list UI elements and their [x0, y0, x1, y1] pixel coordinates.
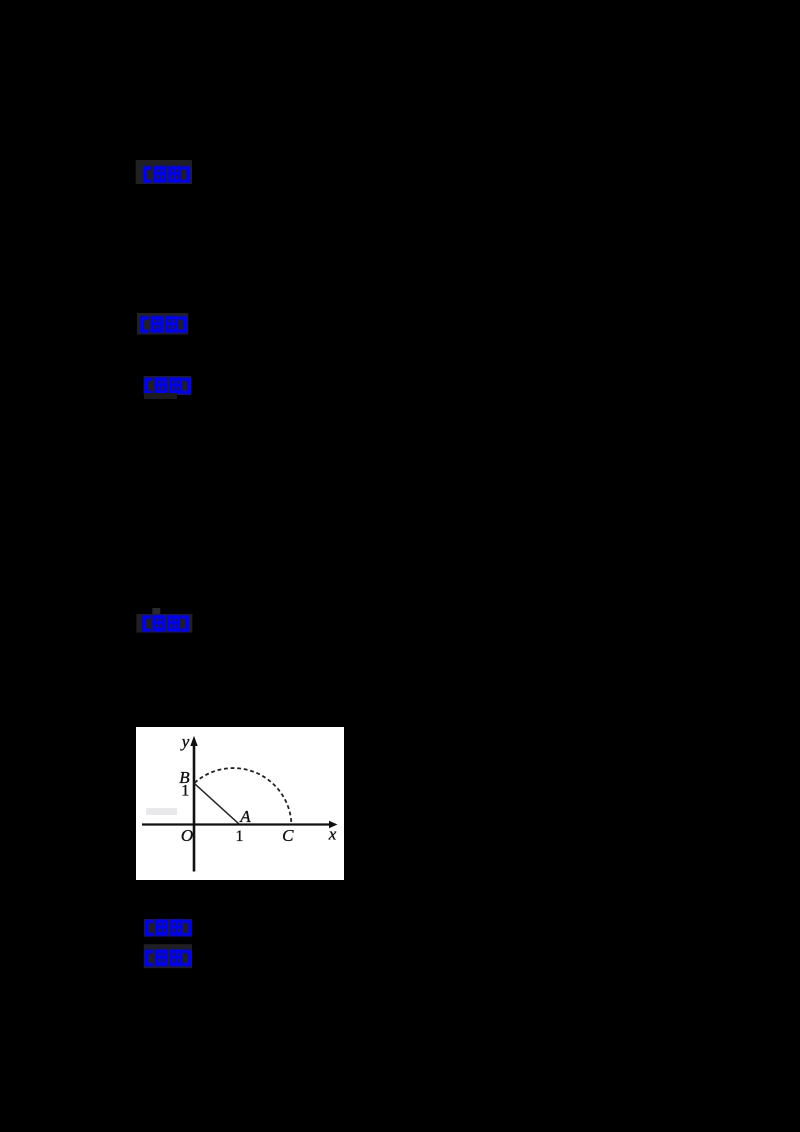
x-axis	[142, 823, 331, 825]
label tag3 blue bracketed heading	[142, 375, 196, 400]
label tag2 blue bracketed heading	[136, 312, 192, 336]
label tag6 blue bracketed heading	[142, 943, 196, 970]
svg-text:1: 1	[181, 783, 189, 800]
faint watermark streak	[146, 808, 177, 815]
svg-text:x: x	[328, 824, 337, 843]
svg-text:1: 1	[236, 828, 244, 845]
svg-text:A: A	[239, 807, 251, 826]
labels	[179, 732, 336, 845]
segment BA	[194, 783, 239, 824]
figure: coordinate diagram on white	[136, 727, 344, 880]
label tag5 blue bracketed heading	[142, 917, 196, 939]
dashed arc B to C	[195, 768, 292, 823]
svg-text:O: O	[181, 826, 193, 845]
svg-text:C: C	[282, 826, 294, 845]
label tag1 blue bracketed heading	[135, 159, 195, 186]
y-axis	[193, 740, 196, 872]
shared defs: blue bracketed CJK-style tag glyphs	[0, 0, 1, 1]
label tag4 blue bracketed heading	[135, 607, 195, 634]
svg-text:y: y	[180, 732, 190, 751]
